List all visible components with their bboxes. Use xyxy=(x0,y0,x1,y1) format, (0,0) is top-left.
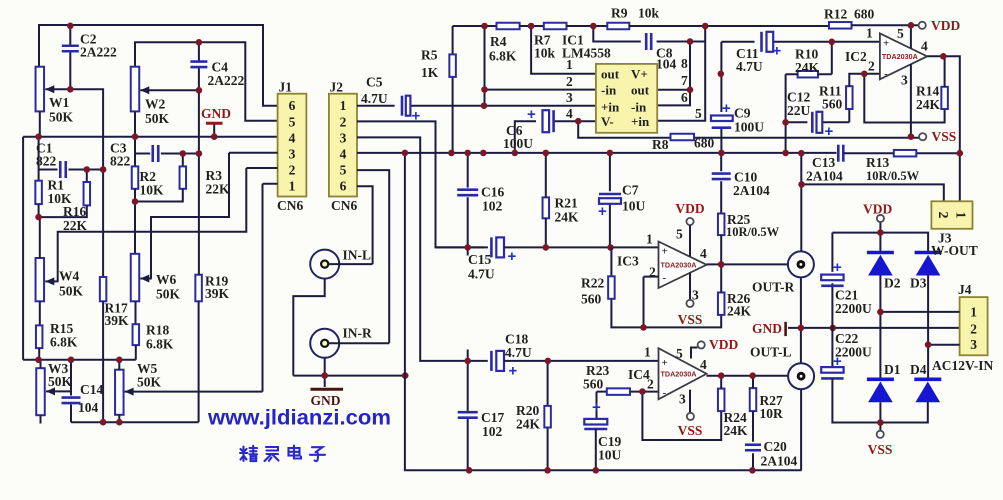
svg-text:6: 6 xyxy=(681,90,688,105)
VDD terminal (top right) xyxy=(919,22,926,29)
wire: W2 bottom to GND bus xyxy=(134,111,136,136)
pin numbers J4 xyxy=(970,304,977,352)
wire: R10 left column to bus xyxy=(785,74,787,153)
junction dots supply xyxy=(877,229,931,426)
svg-text:C20: C20 xyxy=(764,439,787,454)
resistor R23 xyxy=(607,388,630,395)
svg-text:C9: C9 xyxy=(734,106,751,121)
connector J2 xyxy=(329,94,357,197)
capacitor C18 4.7U xyxy=(491,351,504,371)
svg-text:-in: -in xyxy=(631,99,647,114)
capacitor C9 100U xyxy=(711,116,733,128)
wire: W2 top loop to J1 pin 5 xyxy=(135,42,278,121)
wire: OUT-L bottom xyxy=(800,389,802,470)
resistor R2 xyxy=(132,166,139,188)
svg-text:10R: 10R xyxy=(760,406,784,421)
wiper arrow W4 xyxy=(45,277,58,285)
svg-text:+: + xyxy=(598,203,607,220)
wire: node to W6 top xyxy=(134,202,136,254)
wire: C22 top lead xyxy=(831,328,833,367)
svg-text:560: 560 xyxy=(822,97,843,112)
resistor R24 xyxy=(718,389,725,412)
svg-text:1: 1 xyxy=(646,232,653,247)
svg-text:1K: 1K xyxy=(421,65,439,80)
svg-text:2A104: 2A104 xyxy=(733,183,770,198)
svg-text:2: 2 xyxy=(935,212,950,219)
connector J4 xyxy=(960,297,988,355)
potentiometer W3 xyxy=(36,368,45,415)
wire: rail R12 to VDD xyxy=(852,24,919,26)
svg-text:22K: 22K xyxy=(206,182,231,197)
svg-text:D4: D4 xyxy=(910,362,927,377)
VSS terminal (top right) xyxy=(919,133,926,140)
junction dots input ground xyxy=(321,372,408,379)
wire: stub above C17 node xyxy=(467,350,469,361)
svg-text:10U: 10U xyxy=(598,448,622,463)
resistor R8 xyxy=(671,134,695,141)
ground symbol (inputs) xyxy=(311,388,344,391)
svg-text:4: 4 xyxy=(700,357,707,372)
wire stub C18 xyxy=(486,360,489,362)
svg-text:680: 680 xyxy=(694,136,715,151)
svg-text:C5: C5 xyxy=(366,75,383,90)
pin numbers J3 (rotated) xyxy=(935,212,968,219)
svg-text:W1: W1 xyxy=(49,95,70,110)
wire: J1 pin1 down to W5 wiper line xyxy=(263,184,278,392)
svg-text:4: 4 xyxy=(700,246,707,261)
wire: D1 anode to rail xyxy=(879,402,881,422)
wire: R16 top lead xyxy=(86,170,88,183)
wire: R17 bottom column xyxy=(102,301,104,422)
wire stub xyxy=(836,152,838,154)
wire: IC1 pin2 xyxy=(485,89,596,91)
potentiometer W6 xyxy=(131,254,140,301)
svg-text:V-: V- xyxy=(601,114,614,129)
wire: W6 to R18 xyxy=(135,301,137,324)
svg-text:4: 4 xyxy=(566,106,573,121)
svg-text:IC3: IC3 xyxy=(617,254,639,269)
capacitor C13 xyxy=(838,145,843,162)
resistor R4 xyxy=(497,23,520,30)
junction dots VREF bus xyxy=(402,150,964,251)
svg-text:5: 5 xyxy=(289,114,296,129)
svg-text:1: 1 xyxy=(970,304,977,319)
wire: R20 leads xyxy=(547,361,549,470)
svg-text:C15: C15 xyxy=(468,252,491,267)
svg-text:+: + xyxy=(722,100,731,117)
wiper arrow W3 xyxy=(46,387,71,395)
wire: rail R7 to R9 xyxy=(567,25,608,27)
junction dots left section xyxy=(35,23,217,426)
svg-text:+: + xyxy=(592,399,601,416)
svg-text:VDD: VDD xyxy=(931,18,960,33)
VDD terminal (IC4) xyxy=(698,341,705,348)
connector J1 xyxy=(278,94,307,197)
svg-text:5: 5 xyxy=(897,26,904,41)
svg-text:3: 3 xyxy=(289,147,296,162)
svg-text:822: 822 xyxy=(36,154,57,169)
wire: W3 bottom stub xyxy=(40,415,42,423)
svg-text:2200U: 2200U xyxy=(835,301,872,316)
svg-text:R5: R5 xyxy=(421,48,438,63)
wire: VDD terminal to D2 xyxy=(879,222,881,252)
capacitor C16 xyxy=(457,190,478,196)
svg-text:+in: +in xyxy=(601,99,620,114)
svg-text:R13: R13 xyxy=(866,155,889,170)
svg-text:4.7U: 4.7U xyxy=(468,267,495,282)
svg-text:50K: 50K xyxy=(49,110,74,125)
wire: W4 to R15 xyxy=(39,301,41,325)
RCA jack OUT-R xyxy=(788,251,814,277)
wire: top-left rail to J1 pin 6 xyxy=(39,25,278,106)
svg-text:D1: D1 xyxy=(884,362,901,377)
svg-text:1: 1 xyxy=(289,179,296,194)
wire: C15 to IC3 pin1 xyxy=(504,246,659,248)
svg-text:10R/0.5W: 10R/0.5W xyxy=(726,225,780,239)
svg-text:R22: R22 xyxy=(581,276,604,291)
resistor R11 xyxy=(846,86,853,109)
svg-text:2A104: 2A104 xyxy=(761,454,798,469)
svg-text:R21: R21 xyxy=(555,196,578,211)
wire: J2 pin1 through C5 to IC1 pin3 xyxy=(357,105,596,107)
svg-text:22U: 22U xyxy=(787,103,811,118)
svg-text:24K: 24K xyxy=(555,210,580,225)
svg-text:3: 3 xyxy=(340,130,347,145)
wire: input ground bus xyxy=(293,375,405,377)
diode D3 xyxy=(915,253,942,276)
svg-text:2A222: 2A222 xyxy=(208,73,245,88)
svg-text:R18: R18 xyxy=(146,323,169,338)
wire: IC4 feedback loop xyxy=(642,392,721,440)
svg-text:100U: 100U xyxy=(734,120,764,135)
svg-text:+: + xyxy=(773,43,782,60)
capacitor C19 10U xyxy=(584,419,607,429)
pin numbers J1 xyxy=(289,98,296,194)
wire: IN-L tip to J2 pin6 xyxy=(328,186,372,264)
wire: J1 pin2 to W4 wiper xyxy=(58,168,278,281)
wire: rail R5 to R4 xyxy=(453,25,497,27)
svg-text:OUT-L: OUT-L xyxy=(750,345,792,360)
wire: rail R9 to R12 xyxy=(629,25,829,27)
RCA jack OUT-L xyxy=(788,363,814,389)
svg-text:10R/0.5W: 10R/0.5W xyxy=(866,169,920,183)
pin numbers J2 xyxy=(340,98,347,194)
capacitor C14 xyxy=(62,398,81,404)
wire: C10 column upper xyxy=(720,153,722,214)
wire: C16 column xyxy=(467,153,469,248)
op-amp IC4 TDA2030A xyxy=(659,348,707,399)
wire: IC1 pins 6,7 tied to C8 xyxy=(657,42,690,106)
resistor R19 xyxy=(195,275,202,302)
wire: C4 leads xyxy=(198,42,200,90)
wire: VSS rail with R8 xyxy=(578,121,919,138)
wire: R19 top column xyxy=(198,154,200,275)
svg-text:39K: 39K xyxy=(205,286,230,301)
wire: x405 column upper xyxy=(404,153,406,376)
svg-text:AC12V-IN: AC12V-IN xyxy=(932,358,993,373)
diode D2 xyxy=(867,253,894,276)
potentiometer W1 xyxy=(36,67,45,112)
wiper arrow W2 xyxy=(140,86,199,94)
capacitor C2 xyxy=(62,46,79,52)
svg-text:6: 6 xyxy=(289,98,296,113)
VSS terminal (IC3) xyxy=(686,300,693,307)
resistor R7 xyxy=(544,23,567,30)
wire: C2 leads xyxy=(69,26,71,90)
svg-text:24K: 24K xyxy=(795,60,820,75)
junction dots IC3 xyxy=(640,261,724,331)
wire: R23 left to C19 xyxy=(596,392,598,419)
svg-text:TDA2030A: TDA2030A xyxy=(661,260,697,269)
svg-text:CN6: CN6 xyxy=(277,198,303,213)
op-amp IC3 TDA2030A xyxy=(659,242,707,289)
capacitor C11 4.7U xyxy=(762,32,774,52)
svg-text:R12 680: R12 680 xyxy=(824,7,874,22)
wire: GND loop left vertical xyxy=(22,137,24,360)
wire: IC4 pin3 xyxy=(689,390,691,413)
wire: C1 node xyxy=(39,137,104,181)
svg-text:8: 8 xyxy=(681,56,688,71)
wire: C14 column xyxy=(70,360,72,422)
VSS terminal (supply) xyxy=(877,431,884,438)
resistor R16 xyxy=(84,182,91,205)
wiper arrow W5 with line to J1 pin1 net xyxy=(125,388,263,396)
svg-text:50K: 50K xyxy=(156,287,181,302)
wire: W1 bottom to GND bus xyxy=(39,111,41,136)
svg-text:GND: GND xyxy=(752,321,782,336)
wire: C12 to R11 xyxy=(786,109,850,122)
svg-text:10k: 10k xyxy=(534,46,556,61)
wire: R11 top to IC2 pin2 xyxy=(849,74,880,86)
svg-text:6.8K: 6.8K xyxy=(50,335,78,350)
wire: IC3 pin2 loop xyxy=(644,277,659,328)
resistor R21 xyxy=(543,197,550,218)
capacitor C8 xyxy=(646,33,651,50)
wire: R25 bottom to output xyxy=(720,235,722,264)
wire: R1/R16 bottom node xyxy=(39,204,87,217)
potentiometer W5 xyxy=(115,370,124,415)
capacitor C15 4.7U xyxy=(491,237,504,257)
wire: R10 leads xyxy=(786,73,832,75)
wire: W5 bottom lead xyxy=(118,415,120,422)
wire: mid-left bus xyxy=(23,359,136,361)
wire: IN-R tip to J2 pin5 xyxy=(328,170,389,343)
wire: C7 column xyxy=(609,153,611,248)
wire: W5 top lead xyxy=(118,360,120,370)
wire: J2 pin3 to C18 xyxy=(357,137,487,361)
resistor R25 xyxy=(718,214,725,236)
svg-text:+: + xyxy=(662,357,668,369)
wire: D3 to D4 column xyxy=(927,276,929,379)
wire: IC2 pin3 to VSS rail xyxy=(910,64,912,136)
wire: C13 to R13 to output column xyxy=(843,152,960,154)
connector J3 xyxy=(931,201,972,229)
svg-text:39K: 39K xyxy=(105,313,130,328)
resistor R14 xyxy=(941,87,948,109)
capacitor C20 xyxy=(745,445,761,451)
svg-text:102: 102 xyxy=(482,424,503,439)
potentiometer W2 xyxy=(131,67,140,112)
svg-text:560: 560 xyxy=(581,292,602,307)
svg-text:24K: 24K xyxy=(724,423,749,438)
svg-text:-: - xyxy=(663,387,667,399)
svg-text:TDA2030A: TDA2030A xyxy=(661,369,697,378)
capacitor C7 10U xyxy=(599,194,621,204)
capacitor C4 xyxy=(190,62,207,68)
wire: R27 to C20 to bottom bus xyxy=(752,411,754,470)
svg-text:VDD: VDD xyxy=(709,337,738,352)
wire: C9 column xyxy=(720,42,722,153)
wire: bottom-left bus xyxy=(71,421,199,423)
wire: IC2 pin5 to VDD rail xyxy=(910,25,912,48)
wire: J1 pin3 to W6 wiper xyxy=(151,153,278,279)
resistor R1 xyxy=(35,181,42,204)
capacitor C21 2200U xyxy=(821,275,843,286)
svg-text:24K: 24K xyxy=(727,304,752,319)
svg-text:V+: V+ xyxy=(631,67,648,82)
capacitor C3 xyxy=(153,145,159,162)
svg-text:4.7U: 4.7U xyxy=(736,59,763,74)
svg-text:4: 4 xyxy=(921,39,928,54)
resistor R10 xyxy=(798,71,818,78)
wire: IC3 output to OUT-R xyxy=(707,263,788,265)
op-amp IC1 LM4558 body xyxy=(596,64,657,133)
svg-text:-in: -in xyxy=(601,83,617,98)
resistor R18 xyxy=(133,324,140,345)
wire: to C15 xyxy=(436,246,488,248)
wire: R2/R3 bottom node xyxy=(135,189,183,202)
wiper arrow W1 xyxy=(45,85,71,93)
wire: C6 to IC1 pin4 xyxy=(515,121,596,153)
op-amp IC4 +/- marks xyxy=(662,357,668,399)
op-amp IC3 +/- marks xyxy=(662,246,668,285)
svg-text:W4: W4 xyxy=(59,269,80,284)
svg-text:6.8K: 6.8K xyxy=(489,49,517,64)
wire: R19 bottom column xyxy=(198,301,200,422)
wire: W1 wiper node down left column xyxy=(70,89,103,277)
wire: R7/R9 node through C8 xyxy=(593,26,705,42)
capacitor C12 22U xyxy=(812,112,822,133)
wire: to J3 pin2 xyxy=(802,184,944,201)
wire: rail to IC1 pin5 xyxy=(657,26,705,121)
svg-text:out: out xyxy=(631,83,650,98)
wire: IC2 output to J3 pin1 xyxy=(927,56,960,201)
svg-text:2: 2 xyxy=(647,377,654,392)
svg-text:+: + xyxy=(662,246,668,258)
svg-text:W6: W6 xyxy=(156,272,177,287)
junction dots IC4 channel xyxy=(464,358,756,474)
wire: W4 top lead xyxy=(39,217,41,258)
chinese title (drawn strokes) xyxy=(240,446,325,462)
wire: VDD rail to D3 xyxy=(832,233,928,252)
wire: C11 to IC2 pin1 xyxy=(721,42,880,74)
svg-text:R4: R4 xyxy=(490,34,507,49)
svg-text:+: + xyxy=(883,38,889,50)
wire: OUT-R to OUT-L via GND node xyxy=(800,277,802,363)
svg-text:4.7U: 4.7U xyxy=(361,91,388,106)
svg-text:out: out xyxy=(601,67,620,82)
svg-text:OUT-R: OUT-R xyxy=(752,280,795,295)
capacitor C17 xyxy=(458,412,478,418)
svg-text:1: 1 xyxy=(566,57,573,72)
resistor R26 xyxy=(718,293,725,315)
wire: output coupling column to OUT-R xyxy=(800,153,802,251)
svg-text:102: 102 xyxy=(482,199,503,214)
wire: J2 pin2 to C15 xyxy=(357,121,484,247)
svg-text:TDA2030A: TDA2030A xyxy=(882,52,918,61)
VDD terminal (IC3) xyxy=(686,218,693,225)
resistor R22 xyxy=(608,276,615,299)
wire: GND symbol stem xyxy=(213,124,215,137)
op-amp IC2 TDA2030A xyxy=(880,33,927,79)
RCA jack IN-R xyxy=(310,329,339,358)
svg-text:+: + xyxy=(508,248,517,265)
wire: R14 top xyxy=(944,56,946,87)
capacitor C6 100U xyxy=(543,110,554,132)
ground symbol (near J1) xyxy=(206,122,223,125)
svg-text:5: 5 xyxy=(340,163,347,178)
svg-text:C16: C16 xyxy=(481,185,504,200)
svg-text:IC2: IC2 xyxy=(845,49,867,64)
svg-text:W-OUT: W-OUT xyxy=(931,243,978,258)
wire: W3 top lead xyxy=(40,360,42,368)
wire: GND bus upper xyxy=(23,136,278,138)
capacitor C22 2200U xyxy=(821,367,843,378)
capacitor C10 xyxy=(712,174,731,180)
wire: C3 node xyxy=(135,137,199,167)
svg-text:W2: W2 xyxy=(145,97,166,112)
wire: IC1 pin1 from R4/R7 node xyxy=(531,26,596,74)
svg-text:-: - xyxy=(663,272,667,284)
svg-text:R8: R8 xyxy=(652,137,669,152)
svg-text:6.8K: 6.8K xyxy=(146,337,174,352)
resistor R15 xyxy=(36,325,43,348)
svg-text:5: 5 xyxy=(676,227,683,242)
svg-text:3: 3 xyxy=(970,337,977,352)
diode D4 xyxy=(914,379,941,402)
wire: IC2 feedback loop xyxy=(864,74,944,123)
svg-text:C7: C7 xyxy=(622,183,639,198)
svg-text:24K: 24K xyxy=(516,417,541,432)
svg-text:4.7U: 4.7U xyxy=(505,345,532,360)
svg-text:J4: J4 xyxy=(958,282,972,297)
svg-text:VSS: VSS xyxy=(678,423,703,438)
wire: C4 bottom column xyxy=(198,90,200,153)
svg-text:VSS: VSS xyxy=(932,129,957,144)
svg-text:50K: 50K xyxy=(145,111,170,126)
svg-text:www.jldianzi.com: www.jldianzi.com xyxy=(207,407,391,430)
svg-text:4: 4 xyxy=(340,147,347,162)
svg-text:R9: R9 xyxy=(611,6,628,21)
pin labels inside IC1 xyxy=(601,67,650,129)
resistor R20 xyxy=(544,406,551,428)
wire: R23 leads xyxy=(597,391,659,393)
svg-text:2A222: 2A222 xyxy=(80,45,117,60)
wire: IN-L sleeve to input ground xyxy=(293,279,324,376)
RCA jack IN-L xyxy=(310,250,339,279)
wire: stub below C16 node xyxy=(467,247,469,255)
svg-text:2: 2 xyxy=(868,59,875,74)
svg-text:3: 3 xyxy=(679,392,686,407)
svg-text:104: 104 xyxy=(78,400,99,415)
svg-text:C14: C14 xyxy=(80,382,103,397)
svg-text:6: 6 xyxy=(340,179,347,194)
wire: IC4 pin5 to VDD xyxy=(691,348,698,359)
svg-text:CN6: CN6 xyxy=(331,198,357,213)
wire: stem to ground symbol xyxy=(324,376,326,387)
svg-text:VDD: VDD xyxy=(863,202,892,217)
diode D1 xyxy=(867,379,894,402)
